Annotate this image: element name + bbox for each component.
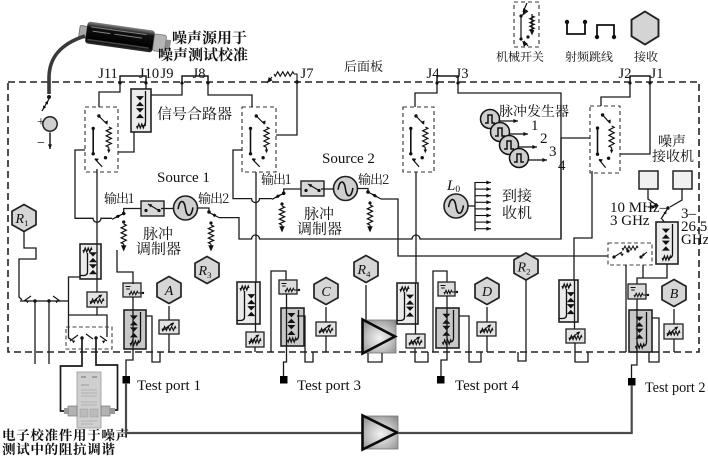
attenuator1 down to tuner [97,307,107,337]
LO arrow 7 [475,220,491,224]
port2 source coupler [559,280,578,322]
coupler1b right hook [146,316,160,362]
SW1 feed down to port1 coupler [96,169,98,244]
legend receiver hexagon [632,12,659,45]
termination resistor under output2 source1 [208,221,213,250]
wire L0 to distribution bar [468,205,475,207]
reference receiver R2 [514,253,538,280]
jumper leg dot [628,81,631,84]
legend label 接收 [634,51,657,62]
wire J3 down to bus A riser [458,84,561,239]
node output2 source2 [366,190,370,194]
label 调制器 (modulator1) [136,241,180,255]
jumper leg dot [648,81,651,84]
source1 output1 return to SW1 [75,150,112,222]
annotation ecal line1 电子校准件用于噪声 [3,428,128,441]
wire receiver2 down [670,189,682,207]
wire J1 leg down to SW4 [620,84,650,154]
calbox1 through dark coupler [126,297,133,376]
label 输出1 (source2) [261,173,290,185]
test port 2 connector [628,378,636,386]
node output1 source1 [122,212,126,216]
pulse generator channel 3 [500,136,519,155]
pulse generator channel 2 [491,123,510,142]
wire source2 to modulator2 [321,188,334,190]
svg-text:J8: J8 [193,66,206,82]
legend RF jumper 2 [595,25,616,39]
legend mechanical switch dashed box [514,2,539,47]
receiver hexagon B [662,280,686,307]
wire source1 to modulator1 [161,208,174,210]
svg-text:4: 4 [558,158,566,174]
R4 stem to amplifier [365,285,367,320]
impedance tuner switch box port2 [608,243,652,265]
svg-text:3 GHz: 3 GHz [610,213,650,229]
annotation noise source line1 噪声源用于 [173,30,247,44]
row join to return line [64,300,69,302]
port2 receiver cal box [628,284,649,299]
jumper leg dot [144,81,147,84]
attenuator3 down [254,347,256,352]
bus B from source2 output2 [381,199,608,256]
switch row leg 2 down [48,301,50,364]
termination resistor under output1 source1 [121,220,126,250]
instrument enclosure dashed border [8,82,699,352]
svg-text:Test port 1: Test port 1 [137,378,201,394]
termination resistor under output2 source2 [367,201,372,231]
transfer switch SW4 [590,106,620,173]
test port 1 connector [123,376,131,384]
wire J9 to combiner right [151,84,182,95]
attenuator4b down [486,336,488,352]
e-cal module photo [64,372,115,428]
noise source cable [49,36,85,94]
attenuator2b down [673,339,675,352]
receiver switch arm [661,208,668,219]
svg-text:C: C [321,285,331,300]
R1 stem down [19,231,36,300]
port3 receiver coupler [281,308,304,346]
svg-text:J1: J1 [651,66,664,82]
staple above calbox1 [117,250,133,284]
switch arm to bias source [42,99,49,111]
calbox2 through dark coupler [632,299,638,378]
hexA stem [168,306,170,320]
wire J8 to SW2 [208,84,252,107]
annotation noise source line2 噪声测试校准 [159,47,248,61]
RF jumper loop on rear panel 4 [630,76,650,84]
label 脉冲 (modulator1) [144,226,173,240]
legend label 机械开关 [496,51,543,62]
test port 4 connector [437,376,445,384]
wire J4 to SW3 [415,84,437,107]
3-26.5 GHz noise coupler [656,222,678,264]
RF jumper loop on rear panel 3 [437,76,458,84]
receiver hexagon D [475,278,499,305]
pulse output arrow 4 [529,158,547,162]
R2 stem down [518,280,526,361]
coupler4b right hook [459,316,481,362]
staple below amplifier [368,353,382,362]
resistor feed at J7 [267,72,297,83]
port1 source attenuator [87,292,107,307]
svg-text:+: + [37,115,45,130]
LO arrow 3 [475,194,491,198]
jumper leg dot [435,81,438,84]
coupler3 through line [255,282,257,332]
port3 receiver attenuator [316,322,336,336]
label 脉冲 (modulator2) [305,206,334,220]
switch arm at output1 of source1 [112,214,124,220]
cable end node [47,95,51,99]
SW3 feed down to port4 coupler [415,172,417,283]
svg-text:2: 2 [540,131,548,147]
label 到接 (to receivers) [503,188,532,202]
svg-text:3: 3 [549,144,557,160]
hexB stem [673,309,675,324]
DUT wire from test port1 [126,383,363,433]
coupler4 through line [415,283,417,334]
jumper leg dot [206,81,209,84]
coupler2 through line [574,280,576,329]
port3 source coupler [237,282,260,324]
rear panel label 后面板 [344,60,382,72]
receiver hexagon C [314,278,338,305]
port4 receiver attenuator [477,322,496,336]
coupler3b right hook [297,316,313,362]
tuner1 leg around to ecal right connector [96,339,118,410]
port4 receiver cal box [438,282,458,296]
svg-text:A: A [164,284,174,299]
node output2 source1 [207,210,211,214]
jumper leg dot [118,81,121,84]
LO distribution bar [474,182,476,231]
port1 receiver attenuator [159,320,179,334]
legend mechanical switch symbol [519,3,534,46]
port3 receiver cal box [279,280,300,294]
transfer switch SW2 [242,107,276,172]
signal combiner 信号合路器 [131,89,151,132]
RF jumper loop on rear panel 1 [120,76,146,84]
coupler1 left return to tuner [69,277,81,340]
bias supply down arrow [48,133,52,150]
staple above calbox3 [271,271,286,352]
label 接收机 (noise receiver) [652,149,693,162]
wire source2 to output2 [358,189,369,192]
LO arrow 2 [475,187,491,191]
reference receiver R3 [195,257,219,284]
test port 3 connector [280,376,288,384]
svg-text:J11: J11 [98,66,118,82]
transfer switch SW3 [403,107,434,172]
wire modulator2 out left [284,189,301,192]
svg-text:J7: J7 [301,66,314,82]
svg-text:1: 1 [531,118,539,134]
wire receiver1 down [648,189,655,204]
wire J11 to SW1 [99,84,120,107]
switch arm at output1 of source2 [272,193,284,199]
pulse generator channel 4 [510,149,529,168]
coupler1 through line [96,244,98,292]
port2 coupler feed from SW4 [574,171,592,280]
reference receiver R1 [12,205,36,232]
source 2 oscillator [334,177,358,201]
label 脉冲发生器 [499,104,568,117]
pulse output arrow 2 [510,132,528,136]
source 1 oscillator [174,196,198,220]
hexD stem [486,307,488,322]
noise source bias supply [43,117,57,131]
svg-text:Test port 4: Test port 4 [455,378,519,394]
svg-text:Source 2: Source 2 [322,151,375,167]
svg-text:Test port 3: Test port 3 [297,378,361,394]
label 噪声 (noise receiver) [659,134,685,147]
svg-text:J4: J4 [427,66,441,82]
wire combiner bottom to SW1 [118,132,134,152]
wire J10 to combiner [145,84,147,89]
tuner right leg to calbox [642,265,644,278]
label 输出1 (source1) [104,192,133,204]
pulse modulator 2 box [301,181,324,196]
LO arrow 1 [475,181,491,185]
wire J7 down to SW2 right [276,82,297,135]
LO arrow 5 [475,207,491,211]
attenuator3b down [325,336,327,352]
label 输出2 (source2) [358,173,388,185]
port1 source coupler [80,244,101,279]
impedance tuner switch box port1 [66,327,112,349]
svg-text:B: B [670,287,679,302]
annotation ecal line2 测试中的阻抗调谐 [2,443,114,456]
pulse output arrow 1 [500,119,518,123]
jumper leg dot [180,81,183,84]
coupler2b right hook [649,318,659,362]
source2 output1 return to SW2 [233,150,272,203]
termination resistor under output1 source2 [279,202,284,231]
staple above calbox4 [433,271,447,352]
calbox3 through dark coupler [284,294,287,376]
calbox4 through dark coupler [441,296,447,376]
noise source photo [78,20,172,55]
pulse generator channel 1 [481,110,500,129]
wire noise coupler down to port2 calbox [637,264,667,284]
receiver hexagon A [157,277,181,304]
hexC stem [325,307,327,322]
port4 source attenuator [406,334,425,348]
svg-text:−: − [37,136,45,151]
port1 receiver coupler [124,310,146,349]
switch arm at output2 of source2 [368,192,381,199]
svg-text:Test port 2: Test port 2 [645,380,705,396]
attenuator1b down [168,334,170,352]
RF jumper loop on rear panel 2 [182,76,208,84]
port1 receiver cal box [123,283,144,297]
local oscillator L0 [444,194,468,218]
attenuator2 down [575,343,588,362]
attenuator1 branch left [69,314,98,316]
label 输出2 (source1) [198,192,228,204]
LO arrow 8 [475,227,491,231]
port4 receiver coupler [436,308,459,348]
transfer switch SW1 [85,107,118,172]
DUT wire to test port2 [398,385,632,433]
legend label 射频跳线 [565,51,612,62]
SW2 feed down to port3 coupler [255,172,257,282]
wire J2 to SW4 [601,84,630,106]
tuner1 leg around to ecal left connector [61,339,83,411]
wire source1 to output2 [198,208,210,211]
port2 receiver coupler [629,310,652,352]
LO arrow 6 [475,214,491,218]
svg-text:J9: J9 [161,66,174,82]
label 调制器 (modulator2) [297,221,341,235]
svg-text:J10: J10 [139,66,159,82]
label 收机 (to receivers) [503,205,532,219]
attenuator4 down [415,348,428,362]
noise receiver block 2 [673,171,692,189]
switch arm at output2 of source1 [209,212,219,217]
J7 node [295,80,299,84]
port3 source attenuator [246,332,264,347]
port3 reference amplifier [363,320,397,354]
label 信号合路器 [157,106,231,120]
node output1 source2 [282,192,286,196]
bus A from source1 output2 [219,138,590,239]
port4 source coupler [397,283,418,324]
svg-text:D: D [481,285,492,300]
pulse modulator 1 box [141,201,164,216]
10MHz arrow to node [648,205,656,209]
svg-text:GHz: GHz [681,232,708,248]
port1 source step switch row [20,296,64,303]
jumper leg dot [456,81,459,84]
receiver select node A [654,203,657,206]
wire to 3-26.5GHz coupler [662,219,665,223]
tuner left leg down [625,265,627,352]
reference receiver R4 [354,256,378,283]
port2 receiver attenuator [664,324,683,339]
svg-text:Source 1: Source 1 [157,170,210,186]
LO arrow 4 [475,200,491,204]
receiver select node B [666,206,669,209]
legend RF jumper 1 [565,20,587,34]
wire modulator1 out left [124,209,141,213]
port2 source attenuator [566,329,585,343]
pulse output arrow 3 [519,145,537,149]
switch row leg 1 down [34,301,36,364]
external amplifier (DUT) [363,416,399,450]
noise receiver block 1 [639,171,658,189]
